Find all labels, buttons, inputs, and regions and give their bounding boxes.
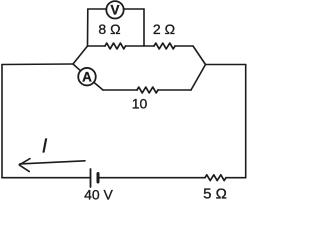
wire diagonal ammeter to bottom branch [94,82,103,90]
svg-text:V: V [110,3,119,18]
wire bottom branch right segment [158,89,191,91]
svg-text:2 Ω: 2 Ω [153,21,175,37]
wire diagonal junction to ammeter [73,64,81,71]
battery B1 long plate [90,169,92,187]
resistor R3 10 ohm [137,87,158,93]
wire left vertical [1,65,3,178]
wire bottom between battery and 5 ohm [98,177,205,179]
wire diagonal top branch to right junction [193,46,206,65]
voltmeter box right vertical wire [143,9,145,46]
wire top branch right segment [175,45,193,47]
wire bottom branch left segment [103,89,137,91]
svg-text:8 Ω: 8 Ω [98,21,120,37]
wire bottom from left vertical to battery [2,177,91,179]
wire diagonal junction to top branch [73,46,88,64]
battery B1 short plate [97,174,100,183]
svg-text:40 V: 40 V [84,187,113,203]
wire bottom from right vertical to 5 ohm [226,177,246,179]
svg-text:A: A [82,70,92,85]
wire right vertical [245,65,247,178]
wire top branch left segment [88,45,106,47]
svg-text:5 Ω: 5 Ω [203,186,227,203]
voltmeter box top left wire [88,8,107,10]
voltmeter box top right wire [124,8,145,10]
svg-text:10: 10 [132,96,148,112]
voltmeter box left vertical wire [87,9,89,46]
wire diagonal bottom branch to right junction [191,65,206,91]
resistor R2 2 ohm [154,43,175,49]
resistor R4 5 ohm [205,175,226,181]
svg-text:I: I [42,136,48,158]
current arrow I [20,161,85,164]
resistor R1 8 ohm [105,43,126,49]
current arrow head [19,159,30,172]
wire left horizontal to node A-junction [2,63,73,66]
wire between 8 ohm and 2 ohm [126,45,155,47]
wire right horizontal from junction [206,64,246,66]
ammeter A circle [78,68,96,86]
voltmeter V circle [106,1,123,18]
